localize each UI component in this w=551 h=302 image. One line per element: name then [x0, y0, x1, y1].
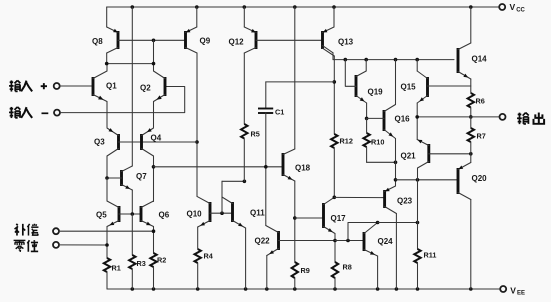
- resistor R3: [129, 214, 146, 289]
- resistor R2: [150, 253, 166, 289]
- svg-text:C1: C1: [275, 108, 284, 117]
- transistor Q20: [458, 163, 487, 290]
- resistor R5: [241, 124, 260, 181]
- svg-text:R10: R10: [371, 138, 384, 147]
- node on Q16E line (Q20 base wire): [394, 178, 398, 182]
- resistor R8: [332, 262, 352, 289]
- wire Q19 base drop: [345, 60, 356, 87]
- node on Vee rail: [333, 287, 337, 291]
- label offset2 (lingwei): [14, 240, 39, 252]
- node on Vee rail: [469, 287, 473, 291]
- node on Vee rail: [376, 287, 380, 291]
- svg-text:Q12: Q12: [229, 38, 245, 47]
- node R11 top junction: [416, 178, 420, 182]
- wire Q21 base to R7 bottom: [429, 153, 471, 155]
- transistor Q4: [142, 128, 162, 202]
- node on Vcc rail: [469, 5, 473, 9]
- node R5/Q11C junction: [243, 180, 247, 184]
- svg-text:R8: R8: [343, 263, 352, 272]
- node Q3C/Q5C/Q7B junction: [105, 176, 109, 180]
- node C1/Q22C on second stage input: [264, 165, 268, 169]
- svg-text:CC: CC: [516, 8, 525, 14]
- resistor R1: [104, 258, 121, 289]
- svg-text:R9: R9: [301, 266, 310, 275]
- transistor Q19: [356, 60, 383, 119]
- svg-text:Q23: Q23: [397, 197, 413, 206]
- transistor Q3: [94, 128, 119, 178]
- Vee terminal: [500, 285, 525, 296]
- svg-text:R12: R12: [340, 137, 353, 146]
- svg-text:Q8: Q8: [92, 37, 103, 46]
- svg-text:R7: R7: [477, 132, 486, 141]
- node output junction: [469, 115, 473, 119]
- label input+ (shuru+): [9, 80, 47, 91]
- transistor Q11: [222, 197, 265, 289]
- node R7/Q21B/Q20E junction: [469, 152, 473, 156]
- svg-text:Q11: Q11: [250, 209, 265, 218]
- svg-text:Q10: Q10: [187, 210, 203, 219]
- node Q19 collector tap: [364, 58, 368, 62]
- node on Vee rail: [293, 287, 297, 291]
- node Q2 collector junction: [152, 62, 156, 66]
- node on Vee rail: [152, 287, 156, 291]
- wire Q17 base: [295, 217, 324, 219]
- wire Q24 collector tie loop: [348, 223, 378, 241]
- label input+: [0, 0, 1, 1]
- wire to Q24 base: [335, 240, 364, 242]
- node Q19 base tap: [344, 58, 348, 62]
- Vcc terminal: [499, 2, 525, 14]
- svg-text:Q6: Q6: [159, 211, 170, 220]
- wire input- to Q2 base: [60, 87, 185, 113]
- transistor Q18: [283, 7, 311, 262]
- transistor Q6: [141, 201, 170, 253]
- resistor R10: [363, 118, 384, 162]
- node on Vee rail: [416, 287, 420, 291]
- svg-text:Q24: Q24: [378, 237, 394, 246]
- node on Vcc rail: [131, 5, 135, 9]
- resistor R6: [468, 93, 485, 117]
- offset terminal 1 (buchang): [53, 228, 59, 234]
- svg-text:Q16: Q16: [395, 115, 411, 124]
- transistor Q12: [229, 7, 257, 124]
- svg-text:Q14: Q14: [472, 55, 488, 64]
- svg-text:Q5: Q5: [96, 211, 107, 220]
- svg-text:Q2: Q2: [140, 84, 151, 93]
- transistor Q17: [324, 197, 347, 262]
- svg-text:R1: R1: [112, 264, 121, 273]
- transistor Q16: [384, 60, 410, 186]
- wire Vcc top rail: [107, 6, 500, 8]
- wire C1 bottom lead / Q22 collector: [265, 113, 267, 226]
- node on Vee rail: [131, 287, 135, 291]
- resistor R7: [468, 117, 486, 163]
- wire R10 bottom to Q16 emitter line: [367, 161, 396, 163]
- wire Q20 base line: [396, 179, 459, 181]
- svg-text:R3: R3: [137, 259, 146, 268]
- transistor Q21: [401, 117, 429, 180]
- svg-text:EE: EE: [517, 291, 525, 297]
- svg-text:V: V: [510, 2, 516, 12]
- transistor Q2: [140, 64, 165, 128]
- wire Q1/Q2 collector tie: [107, 63, 154, 65]
- transistor Q1: [93, 64, 117, 128]
- output terminal: [500, 114, 506, 120]
- wire C1 top lead: [266, 82, 335, 109]
- svg-text:Q22: Q22: [255, 237, 271, 246]
- node on Vcc rail: [293, 5, 297, 9]
- offset terminal 2 (lingwei): [53, 242, 59, 248]
- node on Vee rail: [196, 287, 200, 291]
- transistor Q15: [401, 60, 428, 117]
- svg-text:Q15: Q15: [401, 83, 417, 92]
- svg-text:R5: R5: [251, 130, 260, 139]
- transistor Q13 (dual collector): [323, 7, 354, 134]
- node on Vcc rail: [195, 5, 199, 9]
- wire Q3 base to Q4 base: [119, 141, 198, 143]
- transistor Q24: [364, 223, 393, 290]
- svg-text:Q19: Q19: [368, 88, 384, 97]
- node Q16 collector tap: [394, 58, 398, 62]
- transistor Q23: [385, 186, 413, 289]
- svg-text:Q21: Q21: [401, 152, 417, 161]
- wire offset1 to Q6 emitter: [59, 230, 154, 232]
- wire Q15 base to Q14 emitter: [428, 85, 471, 87]
- wire Q12 base to Q13 base: [256, 39, 323, 41]
- svg-text:R4: R4: [204, 252, 214, 261]
- wire offset2 to Q5 emitter: [59, 244, 107, 246]
- transistor Q9: [186, 7, 211, 53]
- transistor Q22: [255, 226, 279, 290]
- resistor R4: [195, 249, 214, 289]
- node on Vee rail: [265, 287, 269, 291]
- wire Vee bottom rail: [107, 288, 500, 290]
- node on Vcc rail: [243, 5, 247, 9]
- node Q10/Q11 base tie: [220, 211, 224, 215]
- node Q8/Q9 base tie: [152, 39, 156, 43]
- node offset2 junction: [105, 243, 109, 247]
- wire second stage input: [154, 166, 284, 168]
- wire Q11 base-collector tie: [221, 181, 223, 213]
- input+ terminal: [54, 83, 60, 89]
- svg-text:V: V: [510, 285, 516, 295]
- transistor Q14: [458, 7, 487, 93]
- svg-text:Q9: Q9: [200, 37, 211, 46]
- label offset1 (buchang): [15, 224, 39, 236]
- svg-text:Q20: Q20: [472, 174, 488, 183]
- resistor R9: [292, 262, 310, 289]
- wire Q23 base: [334, 196, 384, 198]
- label output (shuchu): [517, 113, 544, 125]
- node on Vcc rail: [332, 5, 336, 9]
- wire Q5 base to Q6 base: [119, 213, 141, 215]
- svg-text:Q13: Q13: [338, 38, 354, 47]
- node Q15 collector tap: [415, 58, 419, 62]
- svg-text:R6: R6: [476, 97, 485, 106]
- svg-text:Q4: Q4: [151, 134, 162, 143]
- node Q18E/Q17 base junction: [293, 216, 297, 220]
- wire Q8 base to Q9 base: [118, 39, 186, 41]
- svg-text:Q17: Q17: [331, 214, 347, 223]
- node Q9C/Q3Q4 base junction: [195, 140, 199, 144]
- svg-text:Q3: Q3: [94, 138, 105, 147]
- node Q19E/R10/Q16B junction: [365, 117, 369, 121]
- svg-text:Q7: Q7: [136, 172, 147, 181]
- wire Q11 collector to R5: [222, 180, 244, 182]
- wire Q9 collector down to Q3/Q4 bases and Q10: [196, 53, 198, 196]
- transistor Q5: [96, 178, 119, 258]
- input- terminal: [54, 110, 60, 116]
- wire output line: [417, 116, 500, 118]
- transistor Q8: [92, 7, 118, 64]
- node Q1 collector junction: [105, 62, 109, 66]
- label input- (shuru-): [9, 107, 48, 118]
- node Q24 collector junction: [376, 221, 380, 225]
- wire Q24C to R11 line: [378, 222, 418, 224]
- node R12/Q17C/Q23 base junction: [333, 196, 337, 200]
- wire input+ to Q1 base: [60, 85, 93, 87]
- node Q17E/R8/Q22B junction: [333, 239, 337, 243]
- node Q15E/Q21C/output junction: [415, 115, 419, 119]
- wire Q10 base to Q11 base: [210, 212, 233, 214]
- transistor Q7: [122, 7, 148, 214]
- node Q7E/Q5Q6 base junction: [131, 212, 135, 216]
- svg-text:Q18: Q18: [295, 164, 311, 173]
- node R11 lead junction: [416, 221, 420, 225]
- svg-text:Q1: Q1: [106, 82, 117, 91]
- wire Q13 inner collector bias line: [333, 59, 454, 61]
- capacitor C1: [258, 108, 284, 117]
- node C1/Q13C junction: [333, 80, 337, 84]
- wire Q7 base to Q3/Q5 collectors: [107, 177, 122, 179]
- svg-text:R11: R11: [424, 251, 437, 260]
- wire base tie down to collector node: [153, 40, 155, 63]
- svg-text:R2: R2: [157, 256, 166, 265]
- node offset1 junction: [152, 229, 156, 233]
- node on Vee rail: [244, 287, 248, 291]
- resistor R12: [331, 134, 353, 197]
- resistor R11: [414, 180, 436, 289]
- transistor Q10: [187, 196, 211, 249]
- node on Q16E line (R10): [394, 161, 398, 165]
- node on Vee rail: [395, 287, 399, 291]
- node Q4C/Q6C tap to second stage: [152, 165, 156, 169]
- wire Q22 base to Q17 emitter node: [279, 240, 336, 242]
- node Q24 base/collector tie: [346, 239, 350, 243]
- wire Q16 base: [367, 117, 384, 119]
